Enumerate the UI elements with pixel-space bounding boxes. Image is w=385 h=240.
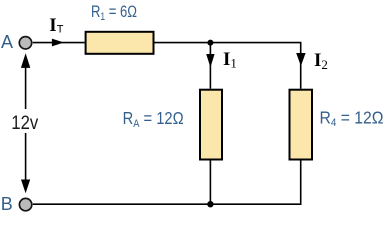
- wire: branch 2 vertical from R4 bottom to bottom wire corner: [300, 161, 302, 204]
- svg-text:R1 = 6Ω: R1 = 6Ω: [91, 2, 137, 23]
- svg-text:12v: 12v: [11, 113, 38, 134]
- resistor RA: [200, 90, 222, 160]
- resistor R1: [86, 32, 154, 54]
- arrow I2 on branch 2: [296, 53, 305, 66]
- wire: top wire from node A to resistor R1: [33, 42, 85, 44]
- wire: bottom wire from node B to branch 2: [33, 203, 302, 205]
- wire: top wire from R1 to branch 2 corner, down to R4 top: [155, 43, 301, 89]
- arrow I1 on branch 1: [206, 54, 214, 67]
- terminal A circle: [19, 37, 31, 49]
- svg-text:A: A: [1, 32, 13, 52]
- arrow down toward node B: [21, 180, 30, 194]
- wire: left voltage reference line between arrows: [25, 60, 27, 186]
- white box behind 12v label: [9, 109, 41, 133]
- svg-text:RA = 12Ω: RA = 12Ω: [123, 108, 184, 130]
- terminal B circle: [19, 198, 31, 210]
- resistor R4: [290, 90, 313, 160]
- arrow up toward node A: [21, 53, 30, 68]
- node junction dot top: [207, 40, 213, 46]
- svg-text:B: B: [1, 194, 13, 214]
- wire: branch 1 vertical from RA bottom to bottom wire: [209, 161, 211, 205]
- svg-text:R4 = 12Ω: R4 = 12Ω: [320, 107, 384, 129]
- wire: branch 1 vertical from top wire to RA top: [209, 43, 211, 89]
- arrow IT on top wire: [52, 39, 64, 47]
- node junction dot bottom: [207, 201, 213, 207]
